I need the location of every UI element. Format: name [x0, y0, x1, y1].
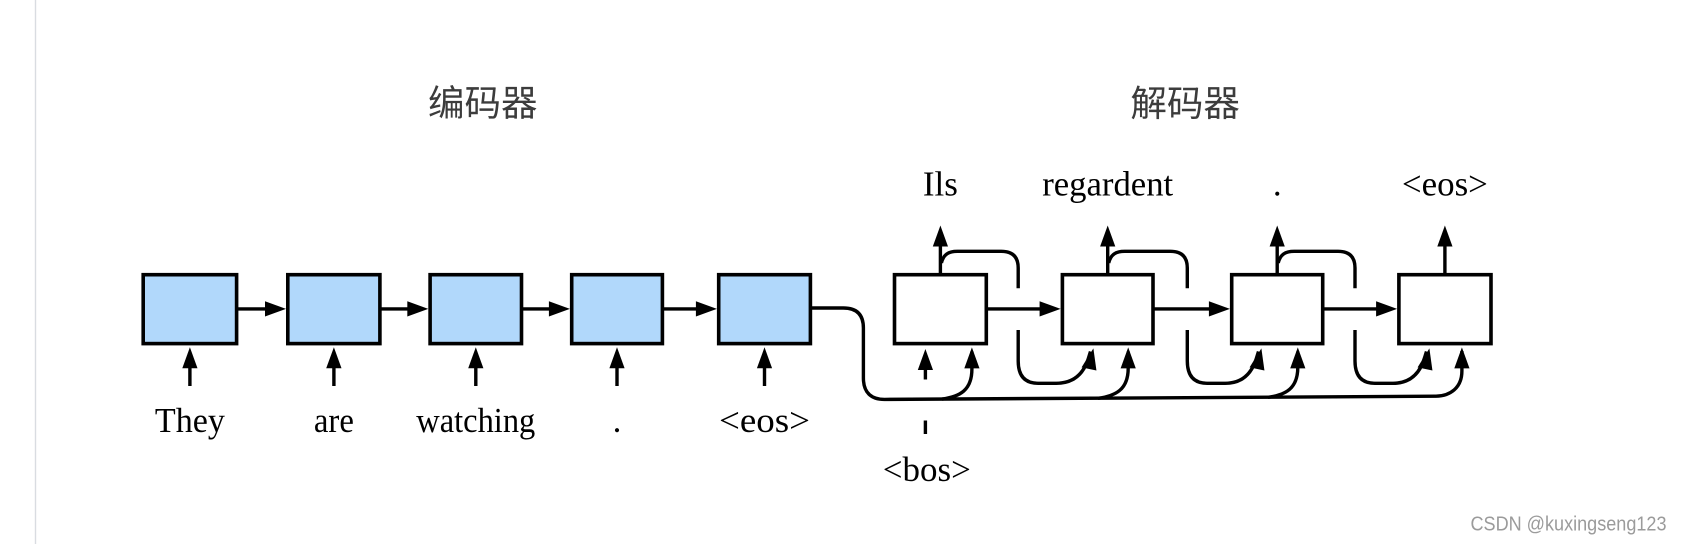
input arrow into encoder box 1 [188, 365, 191, 386]
svg-text:<bos>: <bos> [883, 450, 971, 489]
output arrow from decoder box 1 [939, 244, 942, 274]
context riser arrow into decoder box 1 [942, 352, 972, 400]
encoder RNN box 4 [572, 275, 663, 344]
svg-text:<eos>: <eos> [719, 401, 810, 440]
feedback wire: decoder box 1 output over to next input (upper hook) [941, 251, 1018, 288]
decoder RNN box 3 [1232, 275, 1323, 344]
input arrow into encoder box 4 [615, 365, 618, 386]
svg-text:CSDN @kuxingseng123: CSDN @kuxingseng123 [1471, 514, 1667, 536]
svg-text:They: They [155, 401, 225, 440]
svg-text:are: are [314, 401, 354, 440]
wire decoder box3 to box4 [1324, 307, 1379, 310]
feedback wire lower U into decoder box 4 [1355, 330, 1427, 383]
decoder RNN box 1 [895, 275, 987, 344]
svg-text:watching: watching [416, 401, 535, 440]
context riser arrow into decoder box 3 [1268, 352, 1298, 398]
wire decoder box1 to box2 [987, 307, 1042, 310]
dashed input arrow from <bos> into decoder box 1 [924, 366, 927, 380]
input arrow into encoder box 2 [332, 365, 335, 386]
svg-text:<eos>: <eos> [1402, 165, 1488, 204]
output arrow from decoder box 3 [1275, 244, 1278, 274]
decoder RNN box 4 [1399, 275, 1491, 344]
input arrow into encoder box 3 [474, 365, 477, 386]
wire decoder box2 to box3 [1154, 307, 1211, 310]
context wire: encoder output to long bottom line ending at decoder box 4 [811, 308, 1462, 399]
svg-text:.: . [1273, 165, 1282, 204]
encoder RNN box 1 [143, 275, 236, 344]
context riser arrow into decoder box 2 [1098, 352, 1128, 399]
feedback wire: decoder box 3 output over to next input (upper hook) [1278, 251, 1355, 288]
svg-text:Ils: Ils [923, 165, 958, 204]
output arrow from decoder box 2 [1106, 244, 1109, 274]
feedback wire lower U into decoder box 3 [1187, 330, 1258, 383]
wire encoder box4 to box5 [663, 307, 698, 310]
wire encoder box3 to box4 [522, 307, 551, 310]
title encoder (编码器) [429, 85, 536, 119]
encoder RNN box 3 [430, 275, 521, 344]
svg-text:regardent: regardent [1042, 165, 1173, 204]
output arrow from decoder box 4 [1443, 244, 1446, 274]
decoder RNN box 2 [1062, 275, 1153, 344]
feedback wire lower U into decoder box 2 [1018, 330, 1090, 383]
input arrow into encoder box 5 [763, 365, 766, 386]
encoder RNN box 5 [719, 275, 811, 344]
feedback wire: decoder box 2 output over to next input (upper hook) [1109, 251, 1188, 288]
wire encoder box1 to box2 [237, 307, 267, 310]
svg-text:.: . [613, 401, 622, 440]
title decoder (解码器) [1132, 86, 1239, 120]
wire encoder box2 to box3 [381, 307, 410, 310]
dash segment of <bos> connector [924, 421, 927, 435]
page left border line [35, 0, 36, 544]
encoder RNN box 2 [288, 275, 380, 344]
